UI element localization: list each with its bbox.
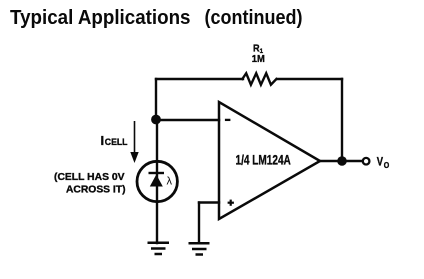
svg-text:λ: λ: [167, 176, 173, 188]
op-amp non-inverting pin plus: [228, 200, 234, 206]
wire photocell branch vertical: [156, 120, 158, 243]
wire right feedback vertical: [341, 79, 343, 161]
ground under photocell: [148, 243, 170, 254]
photocell diode cathode bar: [149, 172, 165, 174]
resistor R1 zigzag: [242, 73, 276, 84]
op-amp U1 triangle: [219, 102, 320, 219]
terminal VO open circle: [363, 158, 370, 165]
svg-text:(CELL HAS 0V: (CELL HAS 0V: [54, 171, 125, 183]
photocell CR1 circle: [137, 161, 177, 201]
svg-text:1/4 LM124A: 1/4 LM124A: [236, 153, 291, 168]
wire non-inverting input horizontal: [199, 201, 219, 203]
wire non-inverting ground vertical: [198, 203, 200, 244]
svg-text:1M: 1M: [252, 53, 265, 65]
wire top feedback left lead: [156, 78, 243, 80]
svg-text:O: O: [384, 161, 390, 170]
wire top feedback right lead: [277, 78, 342, 80]
node output junction: [337, 156, 347, 166]
svg-text:CELL: CELL: [105, 137, 128, 148]
svg-text:(continued): (continued): [205, 7, 303, 29]
svg-text:ACROSS IT): ACROSS IT): [66, 184, 126, 196]
wire output to terminal: [320, 160, 361, 162]
svg-text:Typical Applications: Typical Applications: [10, 7, 191, 29]
ground at non-inverting input: [189, 243, 210, 254]
photocell diode triangle: [150, 175, 163, 187]
wire left feedback vertical: [155, 79, 157, 120]
svg-text:I: I: [101, 133, 105, 148]
op-amp inverting pin minus: [225, 119, 231, 121]
node junction inverting input: [151, 115, 161, 125]
current arrow ICELL: [130, 121, 138, 163]
wire inverting input horizontal: [156, 119, 219, 121]
svg-text:V: V: [377, 156, 383, 169]
